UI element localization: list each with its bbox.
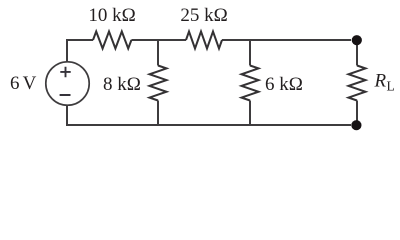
wire: 8 kΩ branch bottom <box>157 101 159 127</box>
label 6 V <box>10 73 37 94</box>
resistor 10 kΩ (zigzag) <box>93 32 131 49</box>
wire: RL branch top <box>356 40 358 66</box>
wire: top rail right segment (25k to node a) <box>222 39 351 41</box>
node a (top terminal dot) <box>352 35 362 45</box>
svg-text:10 kΩ: 10 kΩ <box>88 5 135 26</box>
wire: RL branch bottom <box>356 101 358 126</box>
label RL <box>374 71 395 94</box>
label 8 kΩ <box>103 74 141 95</box>
label 25 kΩ <box>180 5 227 26</box>
resistor RL (vertical zigzag) <box>349 66 366 101</box>
wire: top rail left segment (corner to 10k) <box>67 39 93 41</box>
svg-text:R: R <box>374 71 387 92</box>
wire: 6 kΩ branch top <box>249 39 251 66</box>
wire: top rail middle segment (10k to 25k through node) <box>131 39 186 41</box>
wire: left branch bottom (source to bottom rail) <box>66 105 68 126</box>
svg-text:6 kΩ: 6 kΩ <box>265 74 303 95</box>
wire: 8 kΩ branch top <box>157 39 159 66</box>
svg-text:V: V <box>23 73 37 94</box>
svg-text:6: 6 <box>10 73 20 94</box>
resistor 6 kΩ (vertical zigzag) <box>242 66 259 101</box>
voltage source V1 minus sign <box>60 94 71 96</box>
resistor 8 kΩ (vertical zigzag) <box>150 66 167 101</box>
voltage source V1 circle <box>46 62 89 105</box>
label 6 kΩ <box>265 74 303 95</box>
svg-text:L: L <box>387 79 395 94</box>
voltage source V1 plus sign <box>60 67 70 78</box>
node b (bottom terminal dot) <box>351 120 361 130</box>
wire: left branch top (source to top rail) <box>66 39 68 62</box>
label 10 kΩ <box>88 5 135 26</box>
svg-text:25 kΩ: 25 kΩ <box>180 5 227 26</box>
wire: 6 kΩ branch bottom <box>249 101 251 127</box>
wire: bottom rail from source to node b <box>67 124 351 126</box>
svg-text:8 kΩ: 8 kΩ <box>103 74 141 95</box>
resistor 25 kΩ (zigzag) <box>186 32 222 49</box>
